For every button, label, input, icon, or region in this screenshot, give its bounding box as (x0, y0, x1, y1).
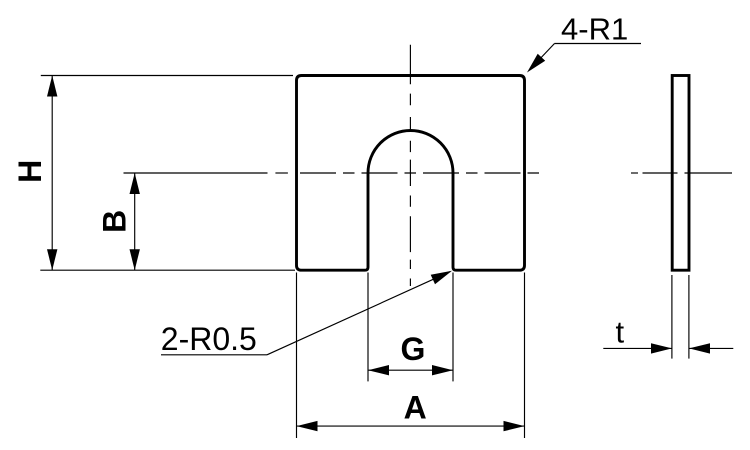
svg-text:2-R0.5: 2-R0.5 (161, 321, 257, 357)
svg-text:B: B (97, 210, 133, 233)
dimension line B (130, 173, 140, 270)
svg-text:G: G (401, 331, 426, 367)
wire horizontal centerline (front view, B extension + dash-dot) (124, 172, 543, 174)
extension lines G (slot edges) (368, 273, 453, 382)
extension lines t (side view edges) (672, 275, 689, 359)
svg-text:A: A (404, 390, 427, 426)
dimension line A (297, 421, 525, 431)
svg-text:H: H (12, 160, 48, 183)
wire vertical centerline (front view) (409, 45, 411, 286)
plate outline (front view with U slot) (297, 76, 525, 271)
extension line bottom (H/B, at plate bottom) (40, 269, 295, 271)
extension line top (H, at plate top) (41, 75, 293, 77)
dimension line t (outside arrows) (603, 343, 733, 353)
side view plate (thin rectangle) (672, 76, 689, 271)
leader 2-R0.5 (161, 271, 452, 355)
svg-text:t: t (616, 315, 625, 350)
extension lines A (plate sides) (297, 273, 525, 439)
dimension line H (47, 76, 57, 271)
dimension line G (368, 365, 453, 375)
wire horizontal centerline (side view) (631, 172, 732, 174)
svg-text:4-R1: 4-R1 (561, 12, 628, 47)
leader 4-R1 (527, 44, 641, 73)
